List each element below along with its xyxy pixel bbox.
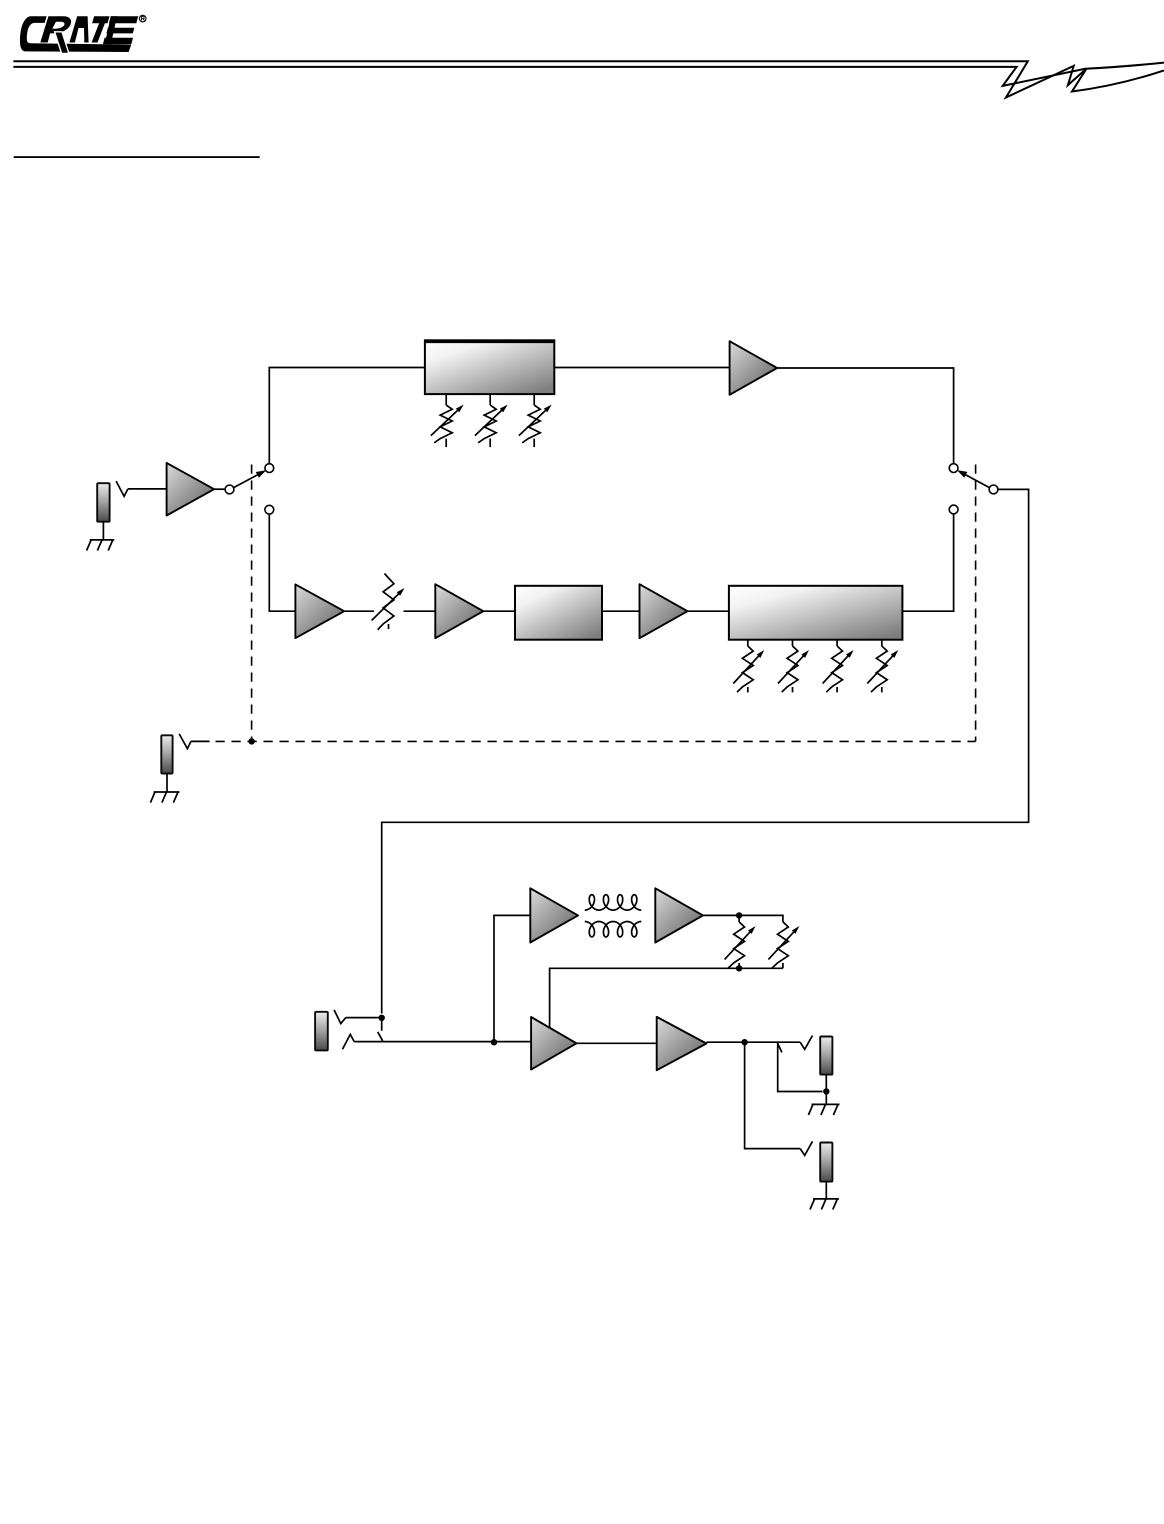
node reverb pot top xyxy=(736,912,742,918)
ground (footswitch jack) xyxy=(154,791,180,793)
CRATE logo letter R xyxy=(40,16,71,53)
distortion op-amp B2 xyxy=(435,584,483,638)
input jack tip contact xyxy=(116,481,128,496)
channel switch S1a pole xyxy=(225,485,234,494)
effects loop normalling contact xyxy=(381,1020,383,1031)
wire dirty throw down to gain stage xyxy=(269,514,295,611)
ground (speaker jack 2) xyxy=(813,1198,839,1200)
wire A2 to right switch xyxy=(777,368,954,464)
speaker jack 1 tip contact xyxy=(800,1036,812,1050)
speaker jack 2 ground lead xyxy=(825,1182,827,1199)
wire M1 to power amp xyxy=(577,1042,657,1044)
reverb pot VR9 xyxy=(738,915,740,922)
distortion tone pot VR8 xyxy=(881,640,883,646)
node effects return xyxy=(379,1015,385,1021)
gain pot VR4 xyxy=(385,574,389,579)
distortion op-amp B1 xyxy=(295,584,344,638)
wire reverb tap up xyxy=(494,915,530,1041)
ground (input jack) xyxy=(90,539,115,541)
clean tone pot VR3 xyxy=(533,394,535,405)
distortion tone pot VR6 xyxy=(792,640,794,646)
dashed control line right xyxy=(975,465,977,742)
title underline xyxy=(14,156,260,158)
speaker jack 1 xyxy=(820,1037,832,1075)
reverb tank primary coil xyxy=(585,895,642,910)
wire S1b pole to preamp out bus xyxy=(382,489,1029,1013)
node speaker bus xyxy=(741,1039,747,1045)
mixer op-amp M1 xyxy=(531,1017,576,1070)
clipping block xyxy=(515,586,602,640)
distortion op-amp B4 xyxy=(640,584,688,638)
wire gain pot to B2 xyxy=(404,610,436,612)
speaker jack 2 tip contact xyxy=(800,1141,812,1155)
wire B1 to gain pot xyxy=(344,610,374,612)
reverb tank secondary coil xyxy=(585,922,642,937)
clean tone pot VR1 xyxy=(445,394,447,405)
wire input to preamp xyxy=(128,488,167,490)
registered trademark symbol xyxy=(139,15,146,22)
channel switch S1a arm xyxy=(234,473,261,488)
distortion tone pot VR7 xyxy=(836,640,838,646)
output switch S1b clean throw xyxy=(949,464,958,473)
wire B2 to clip block xyxy=(483,610,515,612)
effects send contact xyxy=(343,1034,355,1049)
channel switch S1a dirty throw xyxy=(265,505,274,514)
effects loop jack J3 xyxy=(315,1012,328,1051)
footswitch jack J2 xyxy=(161,735,172,773)
reverb recovery op-amp R2 xyxy=(655,888,703,942)
wire A1 to channel switch xyxy=(214,488,225,490)
clean tone pot VR2 xyxy=(489,394,491,405)
input jack ground lead xyxy=(102,522,104,540)
reverb driver op-amp R1 xyxy=(530,888,578,942)
clean level op-amp A2 xyxy=(730,341,778,395)
wire return contact to bus xyxy=(346,1017,382,1019)
preamp op-amp A1 xyxy=(167,463,215,516)
double horizontal rule with lightning bolt xyxy=(13,61,1164,97)
clean tone block xyxy=(425,340,554,394)
speaker jack 1 ground lead xyxy=(825,1075,827,1105)
wire power amp to speaker jacks xyxy=(706,1041,800,1043)
distortion tone pot VR5 xyxy=(747,640,749,646)
wire B4 to distortion tone block xyxy=(688,610,729,612)
wire tone block to S1b dirty throw xyxy=(902,514,953,611)
CRATE logo letter E xyxy=(103,16,138,44)
speaker jack 2 xyxy=(820,1143,832,1182)
wire send to mixer xyxy=(354,1041,531,1043)
channel switch S1a clean throw xyxy=(265,464,274,473)
distortion tone block xyxy=(729,586,903,640)
CRATE logo letter T xyxy=(92,16,110,42)
power amp M2 xyxy=(657,1017,707,1070)
effects return contact xyxy=(334,1010,346,1024)
wire reverb pots bottom return xyxy=(550,968,783,1028)
node reverb pot bottom xyxy=(736,965,742,971)
speaker jack 1 switching contact xyxy=(778,1042,823,1091)
wire R2 to reverb pots xyxy=(703,915,783,922)
dashed control line left xyxy=(251,465,253,742)
output switch S1b pole xyxy=(989,485,998,494)
wire to speaker jack 2 xyxy=(745,1042,801,1148)
wire clip block to B4 xyxy=(602,610,640,612)
footswitch jack tip contact xyxy=(179,734,191,749)
output switch S1b arm xyxy=(962,473,989,488)
CRATE logo letter A xyxy=(69,16,88,42)
output switch S1b dirty throw xyxy=(949,505,958,514)
footswitch jack ground lead xyxy=(166,774,168,793)
reverb pot VR10 xyxy=(772,922,788,968)
dashed control line horizontal xyxy=(191,740,210,742)
wire tone block to A2 xyxy=(554,367,729,369)
CRATE logo letter C with underline swoosh xyxy=(20,16,131,52)
ground (speaker jack 1) xyxy=(812,1103,840,1105)
node reverb tap xyxy=(491,1039,497,1045)
node speaker jack 1 sleeve xyxy=(823,1088,829,1094)
footswitch control node xyxy=(248,738,254,744)
wire clean throw up to tone block xyxy=(269,368,425,464)
input jack J1 xyxy=(97,483,109,522)
